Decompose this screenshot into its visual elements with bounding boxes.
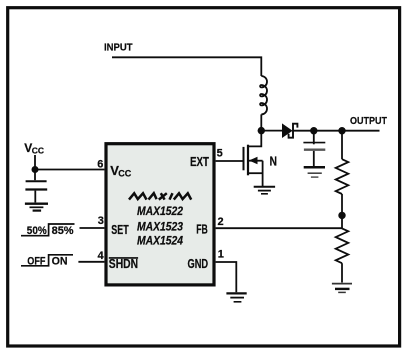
part number MAX1524 (137, 234, 183, 248)
ground (output capacitor) (304, 167, 325, 177)
wire: to SHDN pin 4 (78, 261, 104, 263)
node: switch node junction dot (258, 127, 265, 134)
wire: VCC to pin 6 (35, 169, 104, 171)
capacitor C1 (VCC bypass) (25, 170, 47, 203)
pin number 5 (217, 148, 223, 160)
wire: diode cathode to OUTPUT (293, 130, 380, 132)
node INPUT label (104, 41, 133, 53)
svg-text:CC: CC (118, 169, 131, 179)
svg-text:FB: FB (196, 222, 208, 237)
wire: FB pin 2 to divider (216, 227, 342, 229)
ground (IC GND pin) (226, 293, 246, 301)
op-amp U1: IC body MAX1522/MAX1523/MAX1524 (106, 144, 214, 285)
svg-text:1: 1 (218, 249, 224, 261)
MAXIM logo (129, 193, 191, 199)
ground (divider bottom) (332, 284, 352, 293)
transistor Q1 n-channel MOSFET (244, 132, 263, 186)
node: feedback junction dot (338, 212, 345, 219)
diode D1 Schottky cathode bar (289, 124, 298, 138)
pin number 3 (98, 215, 104, 227)
pin label GND (pin 1 name) (188, 256, 209, 271)
pin label FB (pin 2 name) (196, 222, 208, 237)
wire: to SET pin 3 (80, 227, 105, 229)
part number MAX1522 (137, 204, 183, 218)
svg-text:MAX1523: MAX1523 (137, 219, 183, 233)
ground (mosfet source) (254, 187, 275, 194)
wire: R2 bottom to ground (341, 263, 343, 282)
svg-text:GND: GND (188, 256, 209, 271)
svg-text:INPUT: INPUT (104, 41, 133, 53)
pin number 4 (98, 250, 105, 262)
svg-text:3: 3 (98, 215, 104, 227)
svg-text:MAX1524: MAX1524 (137, 234, 183, 248)
pin number 2 (218, 216, 224, 228)
pin label SET (pin 3 name) (111, 222, 128, 237)
svg-text:4: 4 (98, 250, 105, 262)
svg-text:6: 6 (97, 158, 103, 170)
value label OFF / ON (SHDN levels) (21, 255, 73, 268)
pin number 1 (218, 249, 224, 261)
capacitor C2 (output) (303, 131, 325, 167)
pin label VCC (pin 6 name) (110, 163, 131, 179)
svg-text:OUTPUT: OUTPUT (350, 115, 387, 127)
pin number 6 (97, 158, 103, 170)
svg-text:EXT: EXT (190, 155, 209, 169)
wire: R1 bottom to FB node (341, 194, 343, 228)
pin label SHDN with overline (pin 4 name) (109, 256, 138, 271)
diode D1 (Schottky) anode triangle (282, 123, 293, 138)
svg-text:CC: CC (32, 146, 44, 156)
node: output capacitor junction dot (310, 127, 317, 134)
label N (mosfet) (270, 153, 278, 168)
svg-text:N: N (270, 153, 278, 168)
value label 50% / 85% (SET levels) (21, 224, 75, 237)
wire: switch node to diode anode (261, 130, 282, 132)
wire: output to R1 top (341, 131, 343, 160)
svg-text:ON: ON (52, 256, 68, 268)
wire: GND pin 1 to ground (216, 262, 237, 292)
wire: EXT pin 5 to gate (216, 160, 243, 162)
node: VCC junction dot (32, 166, 39, 173)
node: feedback divider top junction dot (338, 127, 345, 134)
svg-text:MAX1522: MAX1522 (137, 204, 183, 218)
inductor L1 (260, 76, 267, 114)
svg-text:2: 2 (218, 216, 224, 228)
resistor R2 (lower divider) (336, 228, 349, 263)
resistor R1 (upper divider) (336, 159, 349, 194)
svg-text:5: 5 (217, 148, 223, 160)
svg-text:SET: SET (111, 222, 128, 237)
node VCC label (24, 141, 44, 156)
svg-text:85%: 85% (52, 225, 74, 237)
wire: inductor bottom to switch node (260, 114, 262, 130)
wire: INPUT horizontal and down to inductor (112, 57, 261, 76)
node OUTPUT label (350, 115, 387, 127)
pin label EXT (pin 5 name) (190, 155, 209, 169)
wire: VCC stub down to junction (34, 155, 36, 170)
ground (VCC capacitor) (25, 204, 48, 211)
part number MAX1523 (137, 219, 183, 233)
